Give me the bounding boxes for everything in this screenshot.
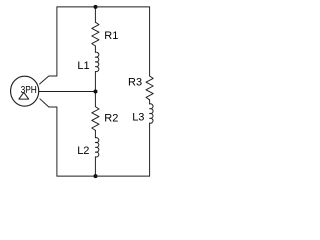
junction: top bus / R1 branch [94,5,98,9]
svg-text:3PH: 3PH [21,85,37,96]
svg-text:L3: L3 [132,111,144,123]
svg-text:L1: L1 [77,60,89,72]
inductor L3 [150,104,153,123]
inductor L1 [95,52,98,71]
wire: R1 to L1 [94,46,96,52]
resistor R3 [146,76,153,100]
svg-text:L2: L2 [77,145,89,157]
svg-text:R1: R1 [104,30,118,42]
junction: bottom bus / L2 branch [94,174,98,178]
wire: bottom bus [57,175,150,177]
wire: L1 down to middle node [94,72,96,92]
wire: top bus junction down to R1 [94,7,96,22]
svg-text:R3: R3 [128,77,142,89]
wire: top bus [57,6,150,8]
wire: source phase B to middle node [39,91,96,93]
wire: L2 down to bottom bus junction [94,157,96,176]
wire: R3 to L3 [149,100,151,104]
wire: left branch down to source phase A stub [40,7,57,84]
junction: middle node between L1 and R2 [94,90,98,94]
resistor R1 [92,22,99,46]
wire: L3 down to bottom bus [149,123,151,176]
inductor L2 [95,138,98,157]
wire: source phase C stub down to bottom bus [40,99,57,176]
wire: right branch from top bus down to R3 [149,7,151,76]
wire: R2 to L2 [94,130,96,137]
delta winding symbol [19,92,29,99]
3-phase source V1 circle [11,76,39,106]
resistor R2 [92,107,99,131]
wire: middle node down to R2 [94,92,96,107]
svg-text:R2: R2 [104,113,118,125]
